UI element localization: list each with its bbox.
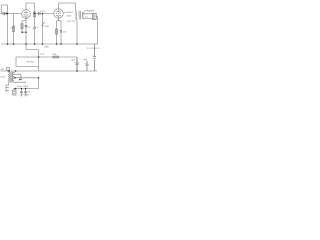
svg-text:20µF: 20µF bbox=[23, 86, 29, 88]
svg-text:6V6GT: 6V6GT bbox=[66, 12, 74, 14]
svg-text:115V: 115V bbox=[0, 77, 5, 79]
svg-text:25: 25 bbox=[28, 27, 31, 29]
svg-text:5000: 5000 bbox=[66, 16, 72, 18]
svg-text:CHOKE: CHOKE bbox=[26, 61, 34, 63]
svg-text:SPEAKER: SPEAKER bbox=[84, 9, 95, 12]
svg-text:5Y3: 5Y3 bbox=[26, 92, 31, 94]
svg-text:GND: GND bbox=[44, 46, 49, 48]
svg-text:GT: GT bbox=[26, 94, 30, 96]
svg-text:0.02: 0.02 bbox=[41, 11, 46, 13]
svg-text:V.C.: V.C. bbox=[85, 16, 89, 18]
svg-text:OUT.TR.: OUT.TR. bbox=[67, 21, 76, 23]
svg-text:8µF: 8µF bbox=[83, 59, 87, 61]
svg-text:10K: 10K bbox=[52, 54, 56, 56]
svg-text:20µF: 20µF bbox=[17, 86, 23, 88]
svg-text:1M: 1M bbox=[10, 28, 13, 30]
svg-text:SW: SW bbox=[0, 69, 4, 71]
svg-text:TO VOICE COIL: TO VOICE COIL bbox=[87, 48, 101, 50]
svg-text:0.5M: 0.5M bbox=[44, 26, 49, 28]
svg-text:6.3V: 6.3V bbox=[40, 53, 45, 55]
svg-text:250: 250 bbox=[63, 32, 67, 34]
svg-text:0.1: 0.1 bbox=[36, 27, 40, 29]
